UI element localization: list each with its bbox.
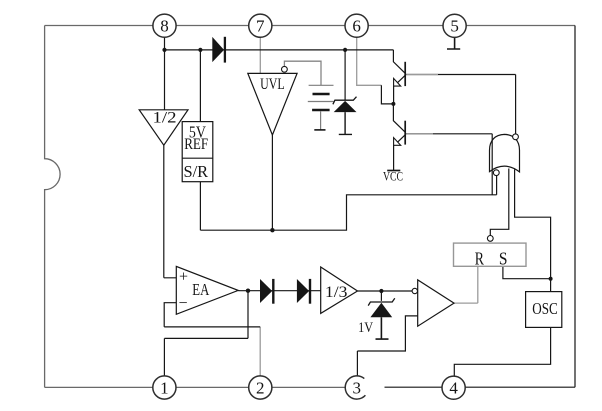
svg-text:4: 4 <box>449 379 458 398</box>
svg-text:1/3: 1/3 <box>325 284 348 301</box>
svg-text:S: S <box>499 248 508 268</box>
svg-text:1: 1 <box>160 378 169 397</box>
svg-text:5: 5 <box>450 17 459 36</box>
svg-text:1/2: 1/2 <box>153 107 177 126</box>
svg-text:OSC: OSC <box>532 299 558 318</box>
svg-text:6: 6 <box>352 17 361 36</box>
svg-text:−: − <box>178 295 187 312</box>
svg-text:2: 2 <box>256 378 265 397</box>
svg-text:+: + <box>179 268 188 285</box>
svg-text:EA: EA <box>192 280 210 299</box>
svg-text:1V: 1V <box>358 319 373 336</box>
svg-text:VCC: VCC <box>383 170 403 184</box>
svg-text:7: 7 <box>256 17 265 36</box>
svg-text:3: 3 <box>353 378 362 397</box>
svg-text:REF: REF <box>184 136 208 153</box>
svg-text:S/R: S/R <box>183 162 208 181</box>
svg-text:8: 8 <box>160 17 169 36</box>
svg-text:R: R <box>475 248 484 268</box>
svg-text:UVL: UVL <box>260 74 285 93</box>
